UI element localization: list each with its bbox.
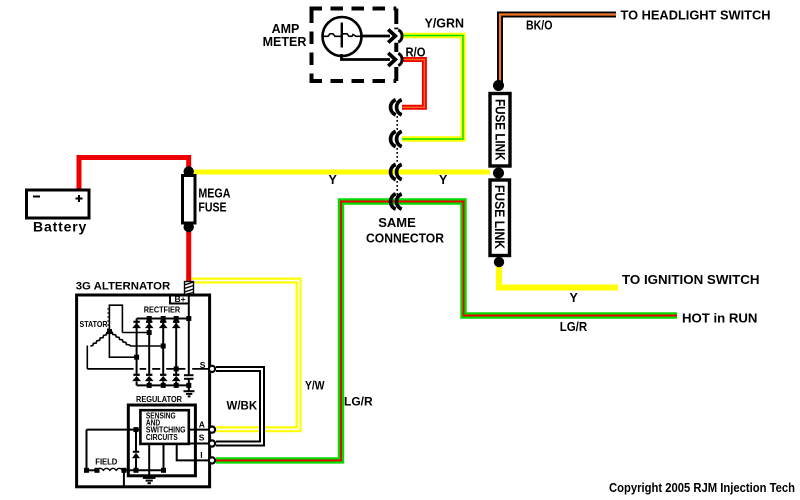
rectifier B+ vertical	[188, 295, 190, 376]
regulator box	[128, 405, 195, 476]
capacitor C1	[184, 375, 194, 391]
wire Y/W alternator A to B+	[191, 281, 299, 430]
wire BK/O to headlight switch	[500, 15, 616, 85]
connector dotted link 1	[396, 116, 398, 131]
wire R/O amp meter to connector	[402, 60, 424, 108]
mega fuse F1	[183, 166, 231, 232]
svg-text:STATOR: STATOR	[80, 319, 108, 329]
rectifier column 2	[148, 319, 150, 386]
stator phase tap to column2	[122, 330, 151, 335]
connector C1 female	[391, 100, 402, 115]
connector C2 female	[391, 131, 402, 146]
rectifier column 3	[162, 319, 164, 386]
svg-text:LG/R: LG/R	[344, 395, 373, 409]
rectifier top bus	[137, 318, 189, 320]
amp meter M1 dashed box	[263, 9, 397, 82]
svg-text:S: S	[200, 360, 206, 370]
connector male bottom	[398, 53, 402, 65]
pin circle S stator	[209, 366, 215, 372]
svg-text:TO IGNITION SWITCH: TO IGNITION SWITCH	[622, 272, 760, 287]
stator phase tap to column3	[130, 344, 166, 349]
svg-text:R/O: R/O	[406, 46, 426, 60]
diode D7 bottom	[159, 375, 168, 381]
svg-text:I: I	[200, 450, 202, 460]
diode D1 top	[132, 322, 141, 328]
connector C4 female	[391, 194, 402, 209]
node dots bottom bus	[147, 383, 192, 388]
stator winding structure	[107, 305, 122, 332]
connector dotted link 2	[396, 148, 398, 164]
node dot between fuse links	[493, 168, 504, 179]
svg-text:S: S	[199, 433, 205, 443]
field line with coil	[84, 468, 166, 473]
svg-text:SAME: SAME	[378, 215, 416, 230]
pin circle I	[209, 457, 215, 463]
pin circle A	[209, 427, 215, 433]
alternator case box	[77, 295, 210, 487]
svg-text:Y: Y	[570, 291, 579, 305]
wire red battery to mega fuse	[79, 158, 189, 191]
wire Y yellow main bus	[192, 170, 490, 175]
svg-text:Copyright 2005 RJM Injection T: Copyright 2005 RJM Injection Tech	[609, 481, 795, 495]
rectifier column 4	[175, 319, 177, 386]
connector male top	[398, 30, 402, 42]
wire A line right	[189, 429, 210, 431]
stator S line to pin	[87, 366, 209, 371]
ground regulator	[143, 478, 156, 483]
sensing circuits box	[140, 410, 188, 444]
svg-text:AMP: AMP	[272, 22, 300, 36]
amp meter output arrow bottom	[342, 53, 396, 66]
diode D6 bottom	[145, 375, 154, 381]
svg-text:REGULATOR: REGULATOR	[136, 394, 183, 404]
wire Y fuse link to ignition switch	[499, 265, 618, 288]
B+ hatched connector	[185, 282, 194, 295]
svg-text:Y: Y	[439, 173, 448, 187]
ground rectifier	[184, 391, 195, 396]
wire A line left	[87, 427, 141, 432]
regulator field vertical	[163, 444, 165, 470]
regulator inner vertical with diode	[132, 430, 140, 471]
wire Y/GRN amp meter to connector	[402, 36, 463, 140]
svg-text:Battery: Battery	[33, 219, 87, 235]
regulator left vertical	[86, 430, 88, 471]
fuse link FL2	[490, 180, 510, 256]
diode D2 top	[145, 322, 154, 328]
diode D3 top	[159, 322, 168, 328]
node dots top bus	[147, 316, 192, 321]
fuse link FL1	[490, 94, 510, 167]
rectifier bottom bus	[137, 384, 189, 386]
battery B1	[27, 190, 90, 235]
pin circle S	[209, 440, 215, 446]
B+ terminal box	[170, 294, 189, 304]
svg-text:METER: METER	[263, 35, 307, 49]
node dot fuse link bottom	[494, 257, 504, 267]
svg-text:Y/GRN: Y/GRN	[425, 17, 465, 31]
svg-text:W/BK: W/BK	[227, 401, 258, 413]
stator winding bumps right	[109, 331, 131, 346]
regulator ground vertical	[148, 444, 150, 478]
svg-text:FUSE LINK: FUSE LINK	[492, 99, 508, 161]
amp meter gauge circle	[323, 17, 362, 56]
wire S line right	[189, 443, 210, 445]
diode D8 bottom	[172, 375, 181, 381]
svg-text:BK/O: BK/O	[526, 19, 553, 33]
svg-text:Y/W: Y/W	[305, 379, 325, 393]
wire LG/R alternator I to hot in run	[216, 202, 677, 461]
diode D5 bottom	[132, 375, 141, 381]
svg-text:CONNECTOR: CONNECTOR	[366, 231, 445, 246]
wire W/BK stator S to regulator S	[216, 369, 262, 444]
svg-text:FIELD: FIELD	[95, 457, 117, 467]
svg-text:Y: Y	[329, 173, 338, 187]
svg-text:CIRCUITS: CIRCUITS	[146, 433, 178, 442]
connector C3 female	[391, 164, 402, 179]
node dot fuse link top	[493, 80, 504, 91]
label SAME CONNECTOR	[366, 215, 445, 246]
connector dotted link 3	[396, 181, 398, 195]
svg-text:RECTFIER: RECTFIER	[144, 305, 181, 315]
rectifier column 1	[136, 319, 138, 386]
svg-text:A: A	[199, 419, 205, 429]
svg-text:B+: B+	[175, 294, 186, 304]
wire red mega fuse to alternator B+	[186, 229, 191, 283]
svg-text:LG/R: LG/R	[560, 320, 588, 334]
svg-text:TO HEADLIGHT SWITCH: TO HEADLIGHT SWITCH	[621, 8, 771, 23]
stator winding bumps left	[90, 331, 109, 346]
svg-text:3G ALTERNATOR: 3G ALTERNATOR	[76, 281, 171, 293]
stator center vertical and tap to column1	[107, 329, 139, 360]
amp meter output arrow top	[361, 30, 395, 43]
wire I line	[177, 444, 210, 461]
diode D4 top	[172, 322, 181, 328]
svg-text:HOT in RUN: HOT in RUN	[682, 311, 757, 326]
stator phase left vertical	[86, 346, 88, 369]
svg-text:FUSE: FUSE	[198, 201, 226, 215]
svg-text:MEGA: MEGA	[198, 186, 230, 200]
svg-text:FUSE LINK: FUSE LINK	[492, 185, 508, 249]
field case drop	[123, 470, 125, 487]
